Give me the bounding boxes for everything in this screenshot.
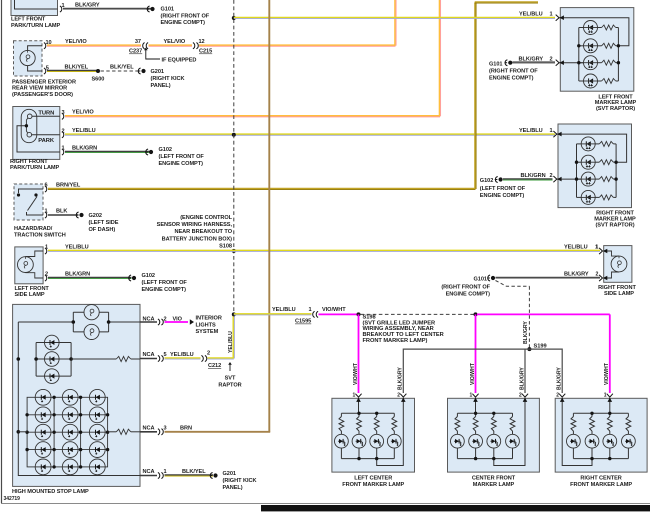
junction of YEL/BLU with dashed bus: [232, 133, 236, 137]
resistor string 2: [475, 413, 477, 416]
svg-text:C237: C237: [129, 49, 142, 55]
svg-text:FRONT MARKER LAMP): FRONT MARKER LAMP): [363, 338, 428, 344]
stop lamp bulb 1: [84, 305, 99, 320]
svg-text:ENGINE COMPT): ENGINE COMPT): [446, 292, 491, 298]
svg-text:2: 2: [62, 128, 65, 134]
pin 2 arrow of marker lamp: [556, 60, 564, 66]
pin 2 feed wire inside marker lamp: [559, 62, 583, 64]
right front side lamp box: [604, 246, 632, 283]
stop lamp left rail: [18, 322, 140, 476]
svg-text:G201: G201: [151, 69, 164, 75]
wire VIO/WHT drop to left center marker lamp: [358, 314, 360, 393]
marker lamp resistor 1: [598, 27, 602, 29]
stop lamp grid feed to resistor: [18, 431, 27, 433]
mirror courtesy bulb: [20, 50, 35, 65]
svg-text:YEL/BLU: YEL/BLU: [170, 352, 194, 358]
left front park/turn lamp (partial box): [11, 0, 58, 16]
svg-text:NEAR BREAKOUT TO: NEAR BREAKOUT TO: [174, 229, 232, 235]
pin 1 of right front park/turn lamp: [62, 149, 64, 155]
svg-text:(LEFT SIDE: (LEFT SIDE: [89, 220, 119, 226]
svg-text:BLK/GRN: BLK/GRN: [521, 173, 546, 179]
SVT Raptor callout: [228, 362, 232, 365]
top bus: [457, 412, 512, 414]
junction dot YEL/BLU at dashed bus end: [232, 312, 236, 316]
svg-text:ENGINE COMPT): ENGINE COMPT): [159, 161, 204, 167]
svg-text:BLK: BLK: [56, 208, 67, 214]
svg-text:2: 2: [207, 351, 210, 357]
svg-text:PARK/TURN LAMP: PARK/TURN LAMP: [11, 23, 61, 29]
CENTER FRONT MARKER LAMP box: [448, 398, 540, 472]
junction dots inside lamp: [357, 412, 360, 415]
svg-text:NCA: NCA: [143, 317, 155, 323]
pin 1 of hazard switch: [45, 212, 47, 218]
wire BLK/GRY from S199 to left center marker lamp: [403, 349, 529, 393]
LED 1: [451, 434, 465, 448]
pin 1 arrow of marker lamp: [553, 131, 561, 137]
resistor string 3: [376, 413, 378, 416]
pin 2 arrow: [559, 394, 565, 402]
bottom bus: [341, 458, 394, 460]
wire inside mirror to pin 10: [28, 46, 42, 51]
wire BRN vertical riser at x=269.3: [268, 0, 270, 432]
resistor string 1: [572, 413, 574, 416]
svg-text:BLK/GRY: BLK/GRY: [75, 3, 100, 9]
marker lamp LED 4: [577, 196, 582, 198]
ground G201 (right kick panel) bottom: [210, 473, 218, 479]
high mounted stop lamp box: [13, 304, 140, 486]
ground G102 for right front marker lamp: [495, 177, 503, 183]
feed wire from pin 1 inside marker lamp: [559, 18, 629, 46]
svg-text:1: 1: [353, 392, 356, 398]
svg-text:CENTER FRONT: CENTER FRONT: [472, 476, 516, 482]
LED 4: [387, 434, 401, 448]
marker lamp LED 1: [579, 27, 584, 29]
resistor string 4: [627, 413, 629, 416]
svg-text:SENSOR WIRING HARNESS,: SENSOR WIRING HARNESS,: [157, 222, 233, 228]
LED 4: [506, 434, 520, 448]
svg-text:1: 1: [596, 244, 599, 250]
stop lamp NCA pin 3 lead: [140, 431, 157, 433]
svg-text:37: 37: [135, 39, 141, 45]
junction dots inside lamp: [590, 412, 593, 415]
wire VIO to interior lights system: [165, 321, 189, 323]
svg-text:PASSENGER EXTERIOR: PASSENGER EXTERIOR: [12, 79, 76, 85]
svg-text:S600: S600: [92, 76, 105, 82]
svg-text:BLK/GRY: BLK/GRY: [519, 367, 525, 390]
wire VIO/WHT drop to center marker lamp: [475, 314, 477, 393]
svg-text:TRACTION SWITCH: TRACTION SWITCH: [14, 232, 66, 238]
svg-text:PARK/TURN LAMP: PARK/TURN LAMP: [10, 165, 60, 171]
pin 1 arrow of right front side lamp: [599, 248, 607, 254]
svg-text:SIDE LAMP: SIDE LAMP: [15, 292, 45, 298]
wire BRN/YEL vertical riser at x=475.5: [475, 3, 476, 190]
svg-text:OF DASH): OF DASH): [89, 227, 116, 233]
switch internal wiring: [19, 189, 44, 193]
left rail inside marker lamp: [576, 144, 578, 198]
svg-text:VIO: VIO: [173, 317, 183, 323]
resistor string 2: [591, 413, 593, 416]
stop lamp 3-LED cluster: [35, 343, 37, 377]
wire BLK/GRY from G101 to left front marker lamp pin 2: [513, 62, 556, 63]
svg-text:1: 1: [604, 392, 607, 398]
svg-text:MARKER LAMP: MARKER LAMP: [473, 482, 515, 488]
svg-text:BRN: BRN: [180, 425, 192, 431]
marker lamp resistor 4: [595, 196, 599, 198]
junction dots inside lamp: [474, 412, 477, 415]
pin 2 return route inside lamp: [562, 398, 592, 465]
wire BRN from NCA 3 to riser: [165, 431, 271, 433]
svg-text:BLK/GRY: BLK/GRY: [398, 367, 404, 390]
svg-text:SVT: SVT: [225, 376, 236, 382]
stop lamp bulb pair loop: [72, 312, 74, 332]
svg-text:1: 1: [45, 245, 48, 251]
svg-text:1: 1: [308, 307, 311, 313]
wire BRN/YEL from pin 6 to riser x=475.5: [48, 189, 476, 190]
svg-text:342719: 342719: [4, 496, 21, 502]
dashed jumper wire from S198 to junction: [361, 313, 475, 315]
svg-text:VIO/WHT: VIO/WHT: [470, 362, 476, 385]
svg-text:YEL/BLU: YEL/BLU: [72, 128, 96, 134]
svg-text:(ENGINE CONTROL: (ENGINE CONTROL: [180, 215, 232, 221]
stop lamp NCA pin 2 lead: [140, 321, 157, 323]
svg-text:LEFT FRONT: LEFT FRONT: [15, 286, 50, 292]
svg-text:HIGH MOUNTED STOP LAMP: HIGH MOUNTED STOP LAMP: [12, 489, 89, 495]
svg-text:BLK/YEL: BLK/YEL: [65, 65, 89, 71]
stop lamp NCA pin 1 lead: [140, 475, 157, 477]
footer black bar: [261, 505, 650, 511]
svg-text:G101: G101: [474, 277, 487, 283]
wire YEL/VIO from C215 rightwards: [199, 45, 396, 46]
resistor string 3: [493, 413, 495, 416]
svg-text:C215: C215: [199, 49, 212, 55]
svg-text:PARK: PARK: [38, 138, 55, 144]
svg-text:3: 3: [164, 425, 167, 431]
svg-text:(RIGHT FRONT OF: (RIGHT FRONT OF: [489, 68, 538, 74]
svg-text:FRONT MARKER LAMP: FRONT MARKER LAMP: [342, 482, 404, 488]
wire BLK/GRY from S199 to right center marker lamp: [529, 349, 562, 393]
svg-text:VIO/WHT: VIO/WHT: [322, 307, 346, 313]
bottom bus: [573, 458, 628, 460]
wire VIO/WHT drop to right center marker lamp: [609, 314, 611, 393]
pin 10 of mirror: [44, 43, 46, 49]
pin 2 return route inside lamp: [494, 398, 525, 465]
svg-text:2: 2: [550, 173, 553, 179]
wire YEL/VIO vertical riser at x=395: [395, 0, 396, 46]
bottom bus: [457, 458, 512, 460]
dashed wire BLK/YEL from S600 to G201: [101, 70, 139, 72]
wire YEL/BLU from pin 2 to right front marker lamp: [65, 134, 555, 135]
junction dot YEL/BLU top: [232, 16, 236, 20]
svg-text:G201: G201: [223, 471, 236, 477]
connector C215 pin 12: [193, 43, 195, 49]
RIGHT CENTER FRONT MARKER LAMP box: [555, 398, 647, 472]
svg-text:BLK/YEL: BLK/YEL: [182, 469, 206, 475]
ground G201 (right kick panel): [138, 68, 146, 74]
svg-text:RIGHT FRONT: RIGHT FRONT: [10, 159, 48, 165]
svg-text:(RIGHT KICK: (RIGHT KICK: [223, 478, 257, 484]
park filament: [27, 132, 32, 137]
turn filament: [27, 114, 32, 119]
wire BLK/GRY from left front park/turn lamp to G101: [63, 9, 151, 10]
marker lamp box: [558, 124, 632, 208]
svg-text:(RIGHT FRONT OF: (RIGHT FRONT OF: [441, 284, 490, 290]
wire BLK from pin 1 to G202: [48, 214, 79, 216]
svg-text:INTERIOR: INTERIOR: [196, 316, 222, 322]
svg-text:1: 1: [470, 392, 473, 398]
resistor string 1: [456, 413, 458, 416]
svg-text:BLK/GRN: BLK/GRN: [72, 145, 97, 151]
wire BLK/YEL from NCA 1 to G201: [165, 475, 214, 476]
wire inside left front park/turn lamp: [15, 0, 58, 9]
svg-text:LEFT FRONT: LEFT FRONT: [11, 17, 46, 23]
marker lamp LED 3: [579, 62, 584, 64]
svg-text:BLK/GRY: BLK/GRY: [564, 272, 589, 278]
svg-text:LEFT CENTER: LEFT CENTER: [354, 476, 392, 482]
svg-text:RIGHT FRONT: RIGHT FRONT: [598, 285, 636, 291]
svg-text:BRN/YEL: BRN/YEL: [56, 182, 81, 188]
right rail inside marker lamp: [617, 28, 619, 82]
pin 2 arrow of marker lamp: [553, 176, 561, 182]
svg-text:1: 1: [550, 12, 553, 18]
pin 1 feed inside lamp: [475, 398, 477, 413]
svg-text:NCA: NCA: [143, 425, 155, 431]
splice S198: [357, 312, 361, 316]
svg-text:G101: G101: [161, 6, 174, 12]
svg-text:YEL/BLU: YEL/BLU: [564, 244, 588, 250]
svg-text:RIGHT CENTER: RIGHT CENTER: [580, 476, 621, 482]
wire YEL/BLU from side lamp to right front side lamp: [48, 250, 600, 251]
svg-text:BLK/GRY: BLK/GRY: [557, 367, 563, 390]
pin 1 of left front park/turn lamp: [60, 6, 62, 12]
internal wiring right front side lamp: [604, 251, 619, 256]
pin 2 of right front park/turn lamp: [62, 132, 64, 138]
stop lamp LED grid 5x3: [27, 397, 108, 467]
stop lamp 3-LED feed to resistor: [71, 358, 116, 360]
svg-text:LIGHTS: LIGHTS: [196, 322, 217, 328]
svg-text:C1595: C1595: [295, 319, 311, 325]
ground G202 (left side of dash): [76, 212, 84, 218]
svg-text:BLK/GRY: BLK/GRY: [523, 321, 529, 344]
svg-text:(LEFT FRONT OF: (LEFT FRONT OF: [142, 280, 188, 286]
ground G102 for left front side lamp: [128, 275, 136, 281]
svg-text:2: 2: [45, 272, 48, 278]
marker lamp LED 2: [579, 45, 584, 47]
marker lamp resistor 4: [598, 80, 602, 82]
resistor string 1: [340, 413, 342, 416]
svg-text:TURN: TURN: [38, 111, 54, 117]
LED 2: [585, 434, 599, 448]
svg-text:G102: G102: [480, 178, 493, 184]
svg-text:G101: G101: [489, 61, 502, 67]
marker lamp LED 1: [577, 143, 582, 145]
pin 1 arrow of marker lamp: [556, 15, 564, 21]
wire YEL/BLU from C212 up to junction: [208, 358, 234, 359]
svg-text:BLK/GRN: BLK/GRN: [65, 272, 90, 278]
marker lamp resistor 3: [598, 62, 602, 64]
resistor string 3: [609, 413, 611, 416]
svg-text:SYSTEM: SYSTEM: [196, 329, 219, 335]
LEFT CENTER FRONT MARKER LAMP box: [332, 398, 415, 472]
svg-text:YEL/VIO: YEL/VIO: [164, 39, 186, 45]
LED 2: [469, 434, 483, 448]
left front side lamp box: [15, 247, 43, 284]
wire BRN/YEL top horizontal segment: [475, 2, 538, 3]
svg-text:YEL/BLU: YEL/BLU: [519, 128, 543, 134]
svg-text:1: 1: [550, 128, 553, 134]
svg-text:1: 1: [164, 469, 167, 475]
splice S600: [96, 69, 100, 73]
svg-text:YEL/VIO: YEL/VIO: [65, 39, 87, 45]
svg-text:5: 5: [164, 352, 167, 358]
svg-text:3: 3: [62, 110, 65, 116]
stop lamp bulb feed wires: [18, 321, 73, 323]
svg-text:REAR VIEW MIRROR: REAR VIEW MIRROR: [12, 86, 67, 92]
svg-text:SIDE LAMP: SIDE LAMP: [604, 291, 634, 297]
svg-text:YEL/BLU: YEL/BLU: [519, 12, 543, 18]
svg-text:NCA: NCA: [143, 469, 155, 475]
svg-text:2: 2: [397, 392, 400, 398]
svg-text:2: 2: [519, 392, 522, 398]
LED 3: [603, 434, 617, 448]
marker lamp resistor 2: [595, 161, 599, 163]
pin 2 return route inside lamp: [377, 398, 404, 465]
pin 2 feed wire inside marker lamp: [557, 178, 581, 180]
svg-text:YEL/VIO: YEL/VIO: [72, 110, 94, 116]
marker lamp box: [560, 8, 634, 92]
svg-text:(SVT RAPTOR): (SVT RAPTOR): [596, 106, 635, 112]
dashed harness bus vertical at x=233.8: [233, 0, 235, 314]
wire YEL/VIO from pin 3 to riser x=440: [65, 116, 440, 117]
svg-text:G102: G102: [142, 273, 155, 279]
svg-text:G102: G102: [159, 147, 172, 153]
svg-text:ENGINE COMPT): ENGINE COMPT): [142, 287, 187, 293]
svg-text:VIO/WHT: VIO/WHT: [604, 362, 610, 385]
wire YEL/VIO between C237 and C215: [149, 45, 193, 46]
svg-text:ENGINE COMPT): ENGINE COMPT): [480, 193, 525, 199]
pin 3 of right front park/turn lamp: [62, 113, 64, 119]
if-equipped callout arrow: [144, 48, 148, 51]
right front park/turn lamp box: [13, 107, 60, 160]
right front side lamp bulb: [611, 256, 627, 272]
svg-text:BLK/YEL: BLK/YEL: [110, 65, 134, 71]
marker lamp resistor 1: [595, 143, 599, 145]
connector C212 pin 2: [201, 355, 203, 361]
left rail inside marker lamp: [578, 28, 580, 82]
diagram left border: [1, 0, 3, 503]
marker lamp LED 4: [579, 80, 584, 82]
wire VIO/WHT from junction to right center marker lamp drop: [477, 313, 610, 315]
svg-text:PANEL): PANEL): [151, 83, 171, 89]
svg-text:(LEFT FRONT OF: (LEFT FRONT OF: [159, 154, 205, 160]
wire YEL/VIO vertical riser at x=440: [440, 0, 441, 116]
wire BLK/GRY from G101 to right front side lamp: [496, 278, 601, 279]
ground G102 (left front of engine compt): [145, 149, 153, 155]
svg-text:(RIGHT KICK: (RIGHT KICK: [151, 76, 185, 82]
svg-text:YEL/BLU: YEL/BLU: [272, 307, 296, 313]
svg-text:BATTERY JUNCTION BOX): BATTERY JUNCTION BOX): [162, 236, 233, 242]
stop lamp LED grid junction dots: [52, 396, 55, 399]
pin 2 arrow: [400, 394, 406, 402]
splice S108 junction dot: [232, 249, 236, 253]
wire YEL/BLU from bus junction to C1595: [234, 314, 312, 315]
svg-text:6: 6: [45, 183, 48, 189]
svg-text:VIO/WHT: VIO/WHT: [353, 362, 359, 385]
wire BLK/YEL from mirror pin 5 to splice S600: [47, 71, 97, 72]
wire BLK/GRN from pin 2 to G102: [48, 278, 132, 279]
footer rule: [1, 503, 650, 505]
stop lamp bulb 2: [84, 324, 99, 339]
wire BLK/GRN from G102 to right front marker lamp pin 2: [503, 179, 553, 180]
resistor string 4: [393, 413, 395, 416]
svg-text:S108: S108: [219, 243, 232, 249]
left front side lamp bulb: [18, 257, 34, 273]
pin 1 arrow: [355, 394, 361, 402]
LED 2: [352, 434, 366, 448]
pin 5 of mirror: [44, 68, 46, 74]
svg-text:ENGINE COMPT): ENGINE COMPT): [161, 20, 206, 26]
svg-text:(PASSENGER'S DOOR): (PASSENGER'S DOOR): [12, 92, 73, 98]
internal wiring of right front park/turn lamp: [32, 115, 60, 117]
LED 1: [335, 434, 349, 448]
LED 1: [567, 434, 581, 448]
feed wire from pin 1 inside marker lamp: [557, 134, 627, 162]
marker lamp LED 2: [577, 161, 582, 163]
marker lamp LED 3: [577, 178, 582, 180]
svg-text:G202: G202: [89, 213, 102, 219]
splice S199: [527, 347, 531, 351]
wire YEL/BLU from bus to left front marker lamp: [234, 18, 555, 19]
pin 1 of left front side lamp: [45, 248, 47, 254]
pin 1 feed inside lamp: [609, 398, 611, 413]
pin 1 feed inside lamp: [358, 398, 360, 413]
hazard/rad/traction switch (dashed box): [14, 184, 43, 220]
svg-text:ENGINE COMPT): ENGINE COMPT): [489, 75, 534, 81]
LED 3: [370, 434, 384, 448]
pin 2 arrow of right front side lamp: [599, 275, 607, 281]
svg-text:(RIGHT FRONT OF: (RIGHT FRONT OF: [161, 13, 210, 19]
pin 2 of left front side lamp: [45, 275, 47, 281]
svg-text:PANEL): PANEL): [223, 485, 243, 491]
resistor string 2: [358, 413, 360, 416]
svg-text:(SVT RAPTOR): (SVT RAPTOR): [595, 222, 634, 228]
svg-text:YEL/BLU: YEL/BLU: [228, 331, 234, 353]
top bus: [573, 412, 628, 414]
pin 6 of hazard switch: [45, 186, 47, 192]
stop lamp NCA pin 5 lead: [140, 358, 157, 360]
LED 4: [622, 434, 636, 448]
svg-text:YEL/BLU: YEL/BLU: [65, 244, 89, 250]
wire BLK/GRY from S199 to center marker lamp: [524, 349, 526, 393]
svg-text:1: 1: [62, 146, 65, 152]
svg-text:IF EQUIPPED: IF EQUIPPED: [162, 58, 197, 64]
resistor string 4: [512, 413, 514, 416]
passenger exterior rear view mirror (dashed box): [14, 41, 43, 76]
ground G101 near right front side lamp: [487, 275, 495, 281]
wire inside mirror to pin 5: [28, 66, 42, 71]
svg-text:12: 12: [199, 39, 205, 45]
pin 1 arrow: [472, 394, 478, 402]
ground G101 for left front marker lamp: [505, 60, 513, 66]
svg-text:NCA: NCA: [143, 352, 155, 358]
svg-text:(LEFT FRONT OF: (LEFT FRONT OF: [480, 186, 526, 192]
ground G101 (top left): [147, 6, 155, 12]
svg-text:HAZARD/RAD/: HAZARD/RAD/: [14, 226, 53, 232]
marker lamp resistor 3: [595, 178, 599, 180]
dual filament bulb outline: [21, 109, 37, 142]
junction dot VIO/WHT: [474, 312, 478, 316]
junction dots inside marker lamp: [577, 44, 580, 47]
dashed BLK/GRY from G101 junction down to S199: [496, 281, 530, 287]
